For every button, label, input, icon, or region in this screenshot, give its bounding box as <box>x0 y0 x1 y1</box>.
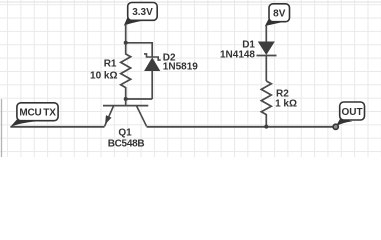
svg-text:1N4148: 1N4148 <box>220 50 255 61</box>
transistor Q1 base bar <box>103 105 148 107</box>
transistor Q1 emitter arrow <box>105 115 111 124</box>
transistor Q1 emitter <box>105 106 114 126</box>
svg-text:BC548B: BC548B <box>108 138 145 149</box>
svg-text:3.3V: 3.3V <box>132 7 153 18</box>
diode D1 triangle <box>258 42 275 56</box>
wire node B rail <box>126 98 153 100</box>
net flag OUT <box>336 102 365 126</box>
net flag 3.3V <box>124 3 157 26</box>
wire 3.3V flag to node A <box>125 24 127 43</box>
node C junction dot <box>264 125 268 129</box>
diode D2 triangle <box>144 57 160 71</box>
resistor R2 <box>261 81 271 127</box>
wire D2 anode to node B <box>151 71 153 99</box>
svg-text:8V: 8V <box>273 8 286 19</box>
svg-text:Q1: Q1 <box>118 128 132 139</box>
node B junction dot <box>124 97 128 101</box>
terminal OUT <box>333 124 338 129</box>
wire Q1 collector to OUT <box>147 126 333 128</box>
wire MCU TX to Q1 emitter <box>10 126 104 128</box>
svg-text:OUT: OUT <box>342 107 363 118</box>
svg-text:10 kΩ: 10 kΩ <box>90 70 117 81</box>
transistor Q1 collector <box>137 106 147 126</box>
svg-text:1 kΩ: 1 kΩ <box>275 98 297 109</box>
node A junction dot <box>124 41 128 45</box>
wire 8V flag to D1 anode <box>265 25 267 42</box>
wire D1 cathode to R2 <box>265 56 267 82</box>
net flag 8V <box>265 4 290 26</box>
svg-text:R1: R1 <box>104 59 117 70</box>
net flag MCU TX <box>10 103 58 127</box>
wire node A to D2 anode branch <box>126 43 153 57</box>
diode D1 cathode bar <box>257 55 277 57</box>
svg-text:1N5819: 1N5819 <box>163 62 198 73</box>
transistor Q1 base lead <box>125 99 127 105</box>
resistor R1 <box>121 43 131 99</box>
diode D2 schottky cathode bar <box>144 54 161 60</box>
svg-text:MCU TX: MCU TX <box>19 108 56 119</box>
